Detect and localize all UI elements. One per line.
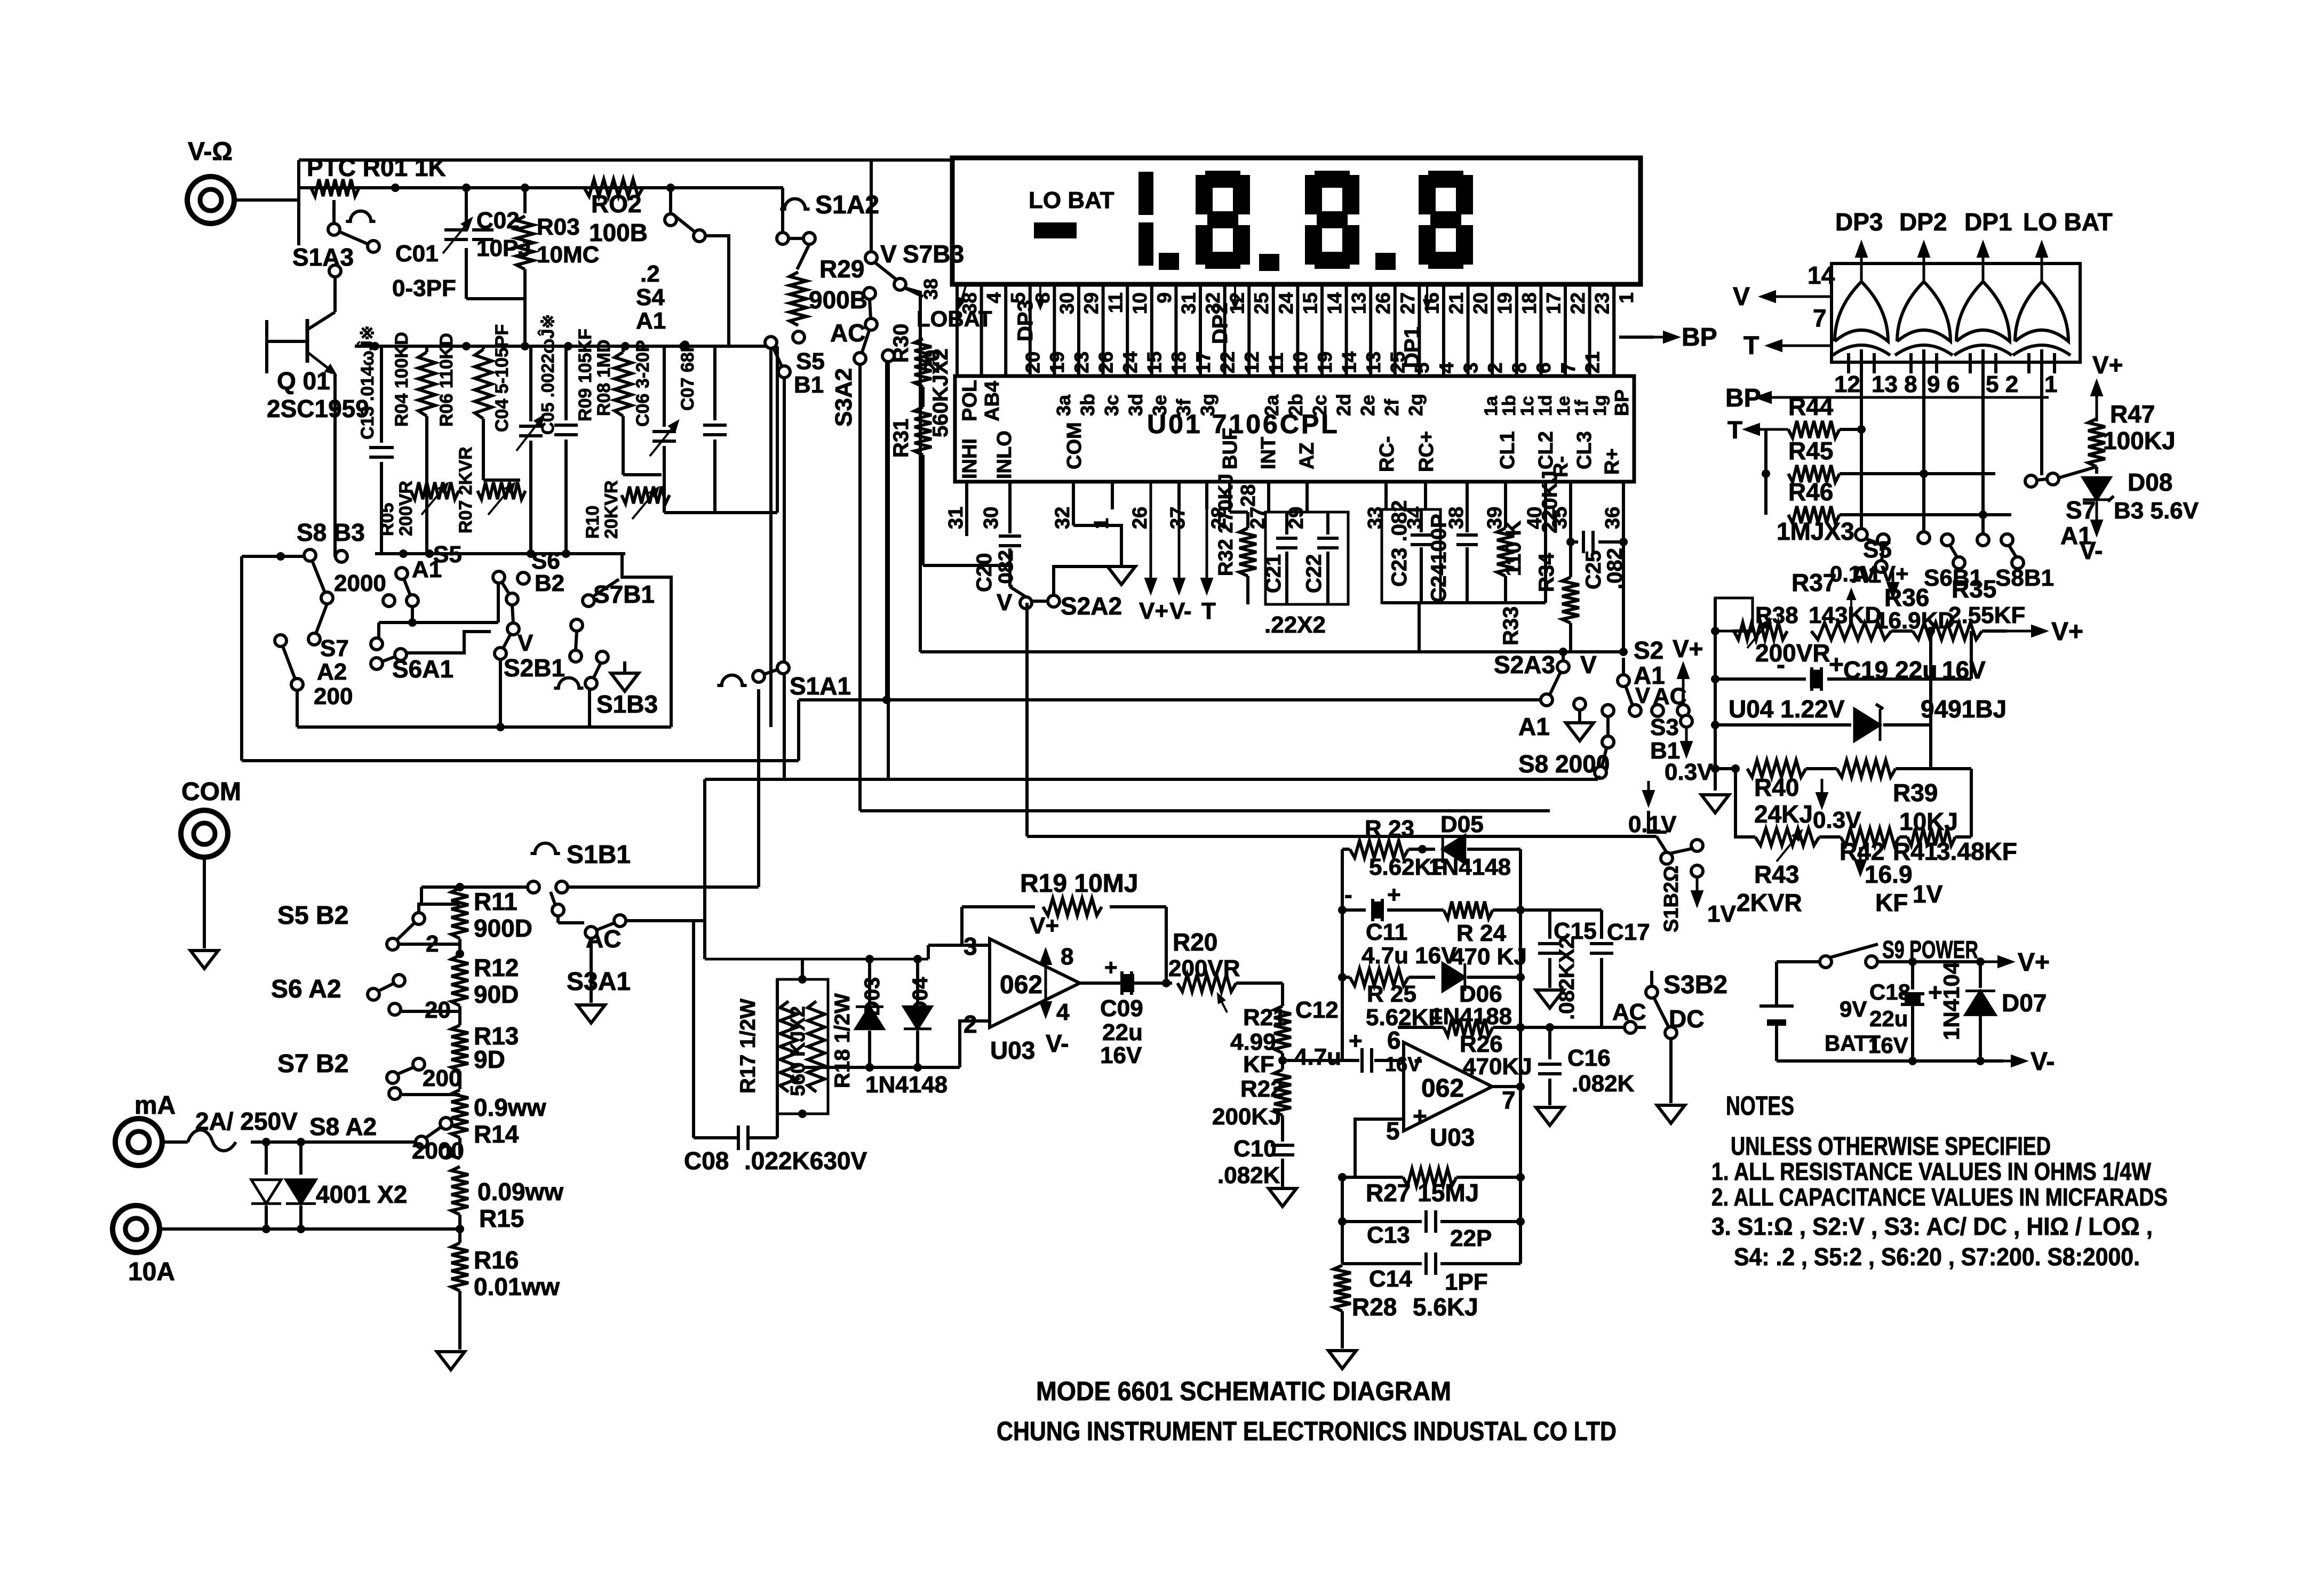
svg-text:15: 15 [1299,292,1321,314]
svg-text:4: 4 [1056,999,1070,1025]
svg-text:2000: 2000 [334,570,386,596]
svg-text:POL: POL [959,380,981,421]
svg-text:26: 26 [1095,352,1117,373]
svg-text:BUF: BUF [1219,428,1241,469]
svg-text:0.1V: 0.1V [1830,561,1876,586]
svg-text:2000: 2000 [412,1138,464,1164]
svg-text:24KJ: 24KJ [1754,800,1813,828]
svg-text:22P: 22P [1450,1225,1492,1251]
svg-text:24: 24 [1275,292,1297,315]
svg-text:8: 8 [1061,944,1073,970]
svg-text:062: 062 [1000,971,1042,999]
svg-text:19: 19 [1314,352,1336,373]
svg-text:20: 20 [1022,352,1044,373]
svg-text:R44: R44 [1788,393,1834,420]
svg-text:16.9KD: 16.9KD [1875,608,1955,634]
svg-text:mA: mA [134,1091,176,1120]
svg-text:2d: 2d [1333,394,1355,416]
svg-text:30: 30 [1056,292,1078,314]
svg-text:24: 24 [1119,351,1141,373]
svg-text:1V: 1V [1707,901,1736,927]
svg-text:BP: BP [1682,323,1717,352]
svg-text:11: 11 [1105,292,1127,313]
svg-text:900B: 900B [809,286,867,314]
svg-text:R21: R21 [1243,1004,1286,1031]
svg-text:INT: INT [1257,437,1280,469]
svg-text:S7B3: S7B3 [903,240,964,268]
svg-text:31: 31 [1177,292,1199,314]
svg-text:C22: C22 [1302,554,1326,593]
svg-text:D04: D04 [909,977,932,1016]
svg-text:R43: R43 [1754,860,1799,888]
svg-text:R06 110KD: R06 110KD [436,333,457,427]
svg-text:B2: B2 [535,570,564,596]
svg-text:R32 270KJ: R32 270KJ [1215,474,1237,576]
svg-text:B3 5.6V: B3 5.6V [2114,498,2199,524]
svg-text:V: V [1635,683,1650,708]
svg-text:V+: V+ [1881,561,1909,586]
svg-text:R 23: R 23 [1365,816,1414,842]
svg-text:V-: V- [1046,1030,1069,1057]
svg-text:DP3: DP3 [1014,300,1037,341]
svg-text:2SC1959: 2SC1959 [267,395,369,422]
svg-text:DP3: DP3 [1835,208,1883,236]
svg-text:20KVR: 20KVR [601,480,622,539]
svg-text:S1A3: S1A3 [292,243,354,271]
svg-text:V: V [517,630,534,656]
svg-text:V: V [880,240,897,268]
svg-text:D05: D05 [1440,811,1484,837]
svg-text:S5: S5 [796,348,825,374]
svg-text:2A/ 250V: 2A/ 250V [195,1107,298,1135]
svg-text:+: + [1349,1028,1363,1054]
svg-text:R18 1/2W: R18 1/2W [831,993,854,1088]
svg-text:C10: C10 [1233,1136,1277,1162]
svg-text:5 2: 5 2 [1986,371,2018,397]
svg-text:AB4: AB4 [981,381,1004,421]
svg-text:3b: 3b [1077,394,1098,416]
svg-text:2a: 2a [1261,394,1283,416]
svg-text:R+: R+ [1601,448,1623,475]
svg-text:6: 6 [1533,362,1555,373]
svg-text:25: 25 [1251,292,1272,314]
svg-text:AZ: AZ [1296,442,1318,469]
svg-text:200VR: 200VR [396,481,416,536]
svg-text:2.55KF: 2.55KF [1948,602,2025,628]
svg-text:.2: .2 [640,261,660,287]
svg-text:CL1: CL1 [1496,431,1519,469]
svg-text:S2B1: S2B1 [504,654,565,682]
svg-text:S8 B3: S8 B3 [297,518,365,546]
svg-text:17: 17 [1192,352,1214,373]
svg-text:1d: 1d [1535,395,1556,416]
svg-text:S3A2: S3A2 [831,368,857,427]
svg-text:9 6: 9 6 [1927,371,1960,397]
svg-text:S4: .2 , S5:2 , S6:20 , S7:20: S4: .2 , S5:2 , S6:20 , S7:200. S8:2000. [1734,1243,2140,1271]
svg-text:062: 062 [1421,1074,1464,1103]
svg-text:V+: V+ [1673,635,1703,663]
svg-text:21: 21 [1581,352,1603,373]
svg-text:C19 22u: C19 22u [1843,656,1937,684]
svg-text:R35: R35 [1952,575,1996,603]
svg-text:U04 1.22V: U04 1.22V [1729,695,1845,723]
svg-text:R09 105KF: R09 105KF [575,329,595,421]
svg-text:10: 10 [1129,292,1151,314]
svg-text:1b: 1b [1499,395,1519,416]
svg-text:R07 2KVR: R07 2KVR [456,446,476,533]
svg-text:DP1: DP1 [1400,326,1424,368]
svg-text:C18: C18 [1869,979,1910,1004]
svg-text:S6 A2: S6 A2 [271,975,341,1003]
svg-text:C14: C14 [1369,1266,1412,1292]
svg-text:1V: 1V [1913,880,1943,908]
svg-text:R39: R39 [1893,779,1938,807]
svg-text:R19 10MJ: R19 10MJ [1020,869,1138,898]
svg-text:18: 18 [1518,292,1540,314]
svg-text:UNLESS OTHERWISE SPECIFIED: UNLESS OTHERWISE SPECIFIED [1731,1132,2051,1161]
svg-text:13: 13 [1348,292,1370,314]
svg-text:19: 19 [1494,292,1516,314]
svg-text:R30: R30 [889,324,913,363]
svg-text:23: 23 [1071,352,1093,373]
svg-text:2c: 2c [1309,395,1331,416]
svg-text:9D: 9D [474,1046,505,1073]
svg-text:4001 X2: 4001 X2 [316,1180,407,1208]
svg-text:0.01ww: 0.01ww [474,1273,560,1300]
svg-text:CL3: CL3 [1573,431,1596,469]
svg-text:S1B2Ω: S1B2Ω [1660,865,1683,932]
svg-text:C01: C01 [395,241,439,267]
svg-text:R38: R38 [1755,602,1798,628]
svg-text:4: 4 [1436,362,1458,373]
svg-text:C25: C25 [1582,550,1605,589]
svg-text:32: 32 [1052,507,1074,529]
svg-text:D07: D07 [2002,989,2047,1017]
svg-text:RC-: RC- [1376,436,1398,472]
svg-text:100KJ: 100KJ [2103,427,2176,454]
svg-text:D08: D08 [2128,468,2172,496]
svg-text:S1B1: S1B1 [567,841,631,869]
svg-text:R45: R45 [1788,437,1833,465]
svg-text:1N4104: 1N4104 [1939,961,1964,1040]
svg-text:Q 01: Q 01 [277,367,330,395]
svg-text:+: + [1413,1102,1427,1130]
svg-text:.022K630V: .022K630V [744,1147,867,1175]
svg-text:-: - [1344,882,1352,908]
svg-text:V-: V- [1169,598,1192,624]
svg-text:0.9ww: 0.9ww [474,1094,546,1121]
svg-text:R15: R15 [479,1204,524,1232]
svg-text:2: 2 [964,1010,977,1038]
svg-text:R11: R11 [474,888,517,915]
svg-text:200VR: 200VR [1755,639,1830,667]
svg-text:6: 6 [1387,1026,1401,1054]
svg-text:R 25: R 25 [1367,981,1416,1007]
svg-text:28: 28 [1237,484,1260,507]
svg-text:470 KJ: 470 KJ [1451,944,1527,970]
svg-text:.082K: .082K [1572,1071,1635,1097]
svg-text:T: T [1743,332,1759,360]
svg-text:0.09ww: 0.09ww [477,1178,563,1206]
svg-text:R47: R47 [2110,400,2155,428]
svg-text:30: 30 [980,507,1002,529]
svg-text:200: 200 [423,1065,461,1091]
svg-text:C05 .0022ωĴ※: C05 .0022ωĴ※ [537,314,558,435]
svg-text:R28: R28 [1352,1293,1397,1321]
svg-text:16V: 16V [1868,1033,1908,1058]
svg-text:R 24: R 24 [1456,920,1506,946]
svg-text:5.6KJ: 5.6KJ [1413,1293,1478,1321]
svg-text:12: 12 [1241,352,1263,373]
svg-text:2f: 2f [1381,398,1403,416]
svg-text:NOTES: NOTES [1726,1091,1794,1121]
svg-text:2g: 2g [1405,394,1427,416]
svg-text:-: - [1414,1044,1423,1074]
svg-text:C12: C12 [1295,997,1339,1023]
svg-text:2b: 2b [1285,394,1307,416]
svg-text:CHUNG INSTRUMENT ELECTRONIC: CHUNG INSTRUMENT ELECTRONICS INDUSTAL CO… [997,1416,1617,1446]
svg-text:+: + [1387,882,1401,908]
svg-text:13 8: 13 8 [1872,371,1917,397]
svg-text:14: 14 [1338,351,1360,373]
svg-text:R14: R14 [474,1120,519,1148]
svg-text:38: 38 [920,278,942,300]
svg-text:9: 9 [1153,292,1175,304]
svg-text:C16: C16 [1567,1045,1611,1071]
svg-text:COM: COM [181,778,241,806]
svg-text:R05: R05 [377,503,397,536]
svg-text:1g: 1g [1590,395,1610,416]
svg-text:S8B1: S8B1 [1995,565,2054,591]
svg-text:BP: BP [1611,389,1633,416]
svg-text:12: 12 [1834,371,1860,397]
svg-text:22u: 22u [1869,1006,1908,1031]
svg-text:21: 21 [1445,292,1467,314]
svg-text:.082K: .082K [1217,1162,1280,1188]
svg-text:R03: R03 [537,214,580,240]
svg-text:PTC R01 1K: PTC R01 1K [307,154,446,181]
svg-text:S6A1: S6A1 [392,655,453,683]
svg-text:C04 5-105PF: C04 5-105PF [492,324,512,432]
svg-text:3a: 3a [1053,394,1074,416]
svg-text:1N4148: 1N4148 [865,1072,948,1098]
svg-text:A1: A1 [636,308,666,334]
svg-text:1. ALL RESISTANCE VALUES IN: 1. ALL RESISTANCE VALUES IN OHMS 1/4W [1711,1158,2151,1185]
svg-text:2: 2 [1484,362,1506,373]
svg-text:1: 1 [2044,371,2057,397]
svg-text:V: V [1733,283,1750,311]
svg-text:14: 14 [1324,292,1345,315]
svg-text:BP: BP [1725,384,1761,412]
svg-text:143KD: 143KD [1809,602,1882,628]
svg-text:.082: .082 [995,550,1017,589]
svg-text:10A: 10A [128,1258,175,1286]
svg-text:T: T [1201,598,1216,624]
svg-text:COM: COM [1063,422,1086,469]
svg-text:R31: R31 [889,419,913,458]
svg-text:3c: 3c [1101,395,1122,416]
svg-text:1c: 1c [1517,396,1538,416]
svg-text:5: 5 [1386,1117,1400,1145]
svg-text:V+: V+ [2051,618,2083,646]
svg-text:3d: 3d [1125,394,1146,416]
svg-text:110 K: 110 K [1502,520,1525,576]
svg-text:S5 B2: S5 B2 [277,901,348,930]
svg-text:0.3V: 0.3V [1813,807,1861,833]
svg-text:U03: U03 [1430,1123,1475,1151]
svg-text:V+: V+ [1139,598,1168,624]
svg-text:V+: V+ [1030,913,1059,939]
svg-text:-: - [1777,651,1785,679]
svg-text:INHI: INHI [959,438,981,479]
svg-text:S2: S2 [1634,636,1663,664]
svg-text:R08 1MD: R08 1MD [594,339,614,416]
svg-text:220KJ: 220KJ [1538,470,1562,533]
svg-text:0-3PF: 0-3PF [392,275,456,301]
svg-text:R40: R40 [1754,773,1799,801]
svg-text:V-: V- [2031,1048,2055,1076]
svg-text:2: 2 [426,931,439,957]
svg-text:S2A2: S2A2 [1061,592,1122,620]
svg-text:C23 .082: C23 .082 [1388,500,1411,587]
svg-text:4: 4 [983,292,1005,304]
svg-text:A1: A1 [1518,713,1550,740]
svg-text:B1: B1 [794,372,824,398]
svg-text:C09: C09 [1100,995,1143,1022]
svg-text:C13: C13 [1367,1222,1410,1248]
svg-text:17: 17 [1542,292,1564,314]
svg-text:10MC: 10MC [537,242,599,268]
svg-text:V-Ω: V-Ω [188,138,233,166]
svg-text:LO BAT: LO BAT [2023,208,2113,236]
svg-text:0.3V: 0.3V [1665,759,1713,785]
svg-text:MODE 6601 SCHEMATIC DIAGRA: MODE 6601 SCHEMATIC DIAGRAM [1036,1376,1451,1406]
svg-text:C06 3-20P: C06 3-20P [633,340,653,427]
svg-text:27: 27 [1397,292,1419,314]
svg-text:C08: C08 [684,1147,729,1175]
svg-text:R27 15MJ: R27 15MJ [1366,1179,1479,1207]
svg-text:900D: 900D [474,914,532,942]
svg-text:3: 3 [1460,362,1482,373]
svg-text:22: 22 [1216,352,1238,373]
svg-text:S7: S7 [320,635,349,661]
svg-text:20: 20 [1470,292,1492,314]
svg-text:C07 68P: C07 68P [678,340,698,411]
svg-text:C17: C17 [1607,919,1650,945]
svg-text:19: 19 [1046,352,1068,373]
svg-text:R33: R33 [1499,607,1523,645]
svg-text:26: 26 [1372,292,1394,314]
svg-text:DP1: DP1 [1964,208,2012,236]
svg-text:KF: KF [1875,889,1908,916]
svg-text:200: 200 [314,683,353,709]
svg-text:+: + [1829,651,1844,679]
svg-text:1e: 1e [1554,396,1574,416]
svg-text:RC+: RC+ [1415,431,1438,472]
svg-text:11: 11 [1265,353,1287,373]
svg-text:4.7u: 4.7u [1294,1044,1341,1070]
svg-text:1f: 1f [1572,400,1592,416]
svg-text:26: 26 [1129,507,1151,529]
svg-text:22: 22 [1567,292,1589,314]
svg-text:R46: R46 [1788,478,1833,506]
svg-text:29: 29 [1080,292,1102,314]
svg-text:31: 31 [945,507,967,529]
svg-text:.082KX2: .082KX2 [1555,937,1579,1020]
svg-text:R04 100KD: R04 100KD [392,332,412,427]
svg-text:S5: S5 [1863,537,1892,563]
svg-text:22u: 22u [1102,1019,1143,1046]
svg-text:+: + [1104,955,1118,980]
svg-text:R10: R10 [583,506,603,539]
svg-text:1MJX3: 1MJX3 [1777,517,1854,545]
svg-text:1PF: 1PF [1445,1269,1488,1295]
svg-text:T: T [1727,416,1742,444]
svg-text:D03: D03 [861,977,884,1016]
svg-text:V: V [997,589,1013,616]
svg-text:3e: 3e [1149,395,1171,416]
svg-text:10: 10 [1289,352,1311,373]
svg-text:1a: 1a [1481,395,1501,416]
svg-text:9V: 9V [1840,996,1867,1022]
svg-text:S1B3: S1B3 [596,690,658,718]
svg-text:V: V [1580,651,1597,679]
svg-text:18: 18 [1168,352,1190,373]
svg-text:200KJ: 200KJ [1212,1104,1281,1130]
svg-text:S3A1: S3A1 [567,968,631,996]
svg-text:RO2: RO2 [591,190,642,218]
svg-text:3g: 3g [1197,394,1219,416]
svg-text:S3: S3 [1650,714,1679,740]
svg-text:R17 1/2W: R17 1/2W [736,999,760,1094]
svg-text:2KVR: 2KVR [1737,889,1802,916]
svg-text:AC: AC [830,319,865,347]
svg-text:560 KJX2: 560 KJX2 [787,1006,809,1096]
svg-text:AC: AC [1612,999,1646,1025]
svg-text:S7 B2: S7 B2 [277,1050,348,1078]
svg-text:23: 23 [1591,292,1613,314]
svg-text:R29: R29 [819,255,864,283]
svg-text:S4: S4 [636,284,665,310]
svg-text:16V: 16V [1100,1042,1142,1068]
svg-text:INLO: INLO [993,430,1016,479]
svg-text:LO BAT: LO BAT [1029,187,1114,213]
svg-text:C20: C20 [973,553,996,592]
svg-text:R41: R41 [1893,837,1938,865]
svg-text:S2A3: S2A3 [1494,651,1555,679]
svg-text:.22X2: .22X2 [1264,612,1326,638]
svg-text:36: 36 [1602,507,1624,529]
svg-text:S9 POWER: S9 POWER [1882,936,1978,963]
svg-text:1: 1 [1615,292,1637,304]
svg-text:20: 20 [425,997,451,1023]
svg-text:C21: C21 [1262,554,1285,593]
svg-text:U03: U03 [990,1036,1035,1064]
svg-text:V+: V+ [2092,351,2123,379]
svg-text:DP2: DP2 [1208,302,1232,344]
svg-text:S8 A2: S8 A2 [309,1113,377,1140]
svg-text:20: 20 [920,350,944,374]
svg-text:3. S1:Ω , S2:V , S3: AC/ DC ,: 3. S1:Ω , S2:V , S3: AC/ DC , HIΩ / LOΩ … [1711,1212,2153,1240]
svg-text:DP2: DP2 [1899,208,1947,236]
svg-text:V+: V+ [2018,948,2050,977]
svg-text:1N4148: 1N4148 [1429,854,1511,880]
svg-text:7: 7 [1502,1086,1516,1114]
svg-text:7: 7 [1813,304,1827,332]
svg-text:2e: 2e [1357,395,1379,416]
svg-text:3f: 3f [1173,398,1195,416]
svg-text:C11: C11 [1366,919,1407,945]
